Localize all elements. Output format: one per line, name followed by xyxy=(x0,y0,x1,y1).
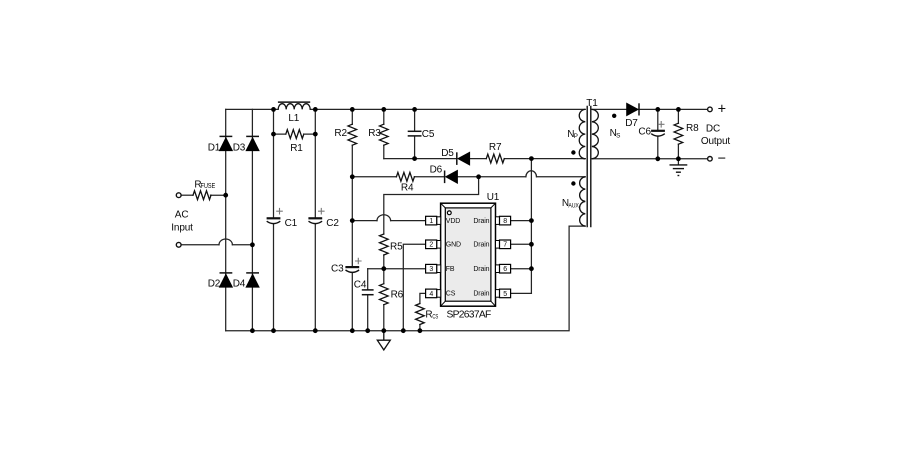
capacitor C3 xyxy=(345,258,361,273)
svg-text:R7: R7 xyxy=(489,142,502,153)
pin 5 box xyxy=(496,289,511,298)
pin 3 box xyxy=(426,264,441,273)
node bottom rail R6 xyxy=(381,328,386,333)
node output top R8 xyxy=(676,107,681,112)
hop AC lower over bridge column 1 xyxy=(219,239,232,245)
svg-text:−: − xyxy=(718,151,726,167)
svg-text:5: 5 xyxy=(503,291,507,298)
wire R6 branch xyxy=(383,269,385,331)
IC U1 SP2637AF body xyxy=(441,203,496,306)
resistor R3 xyxy=(380,124,389,145)
node drain bus pin7 xyxy=(529,242,534,247)
wire AC upper lead xyxy=(181,194,193,196)
node snubber drain bus xyxy=(529,156,534,161)
svg-text:C5: C5 xyxy=(422,129,435,140)
resistor R2 xyxy=(348,124,357,145)
svg-text:GND: GND xyxy=(446,242,461,249)
wire C2 column xyxy=(314,109,316,330)
wire R8 column xyxy=(677,109,679,158)
node drain bus pin6 xyxy=(529,266,534,271)
wire C4 branch xyxy=(367,269,369,331)
svg-text:D3: D3 xyxy=(233,142,246,153)
phase dot NP xyxy=(571,150,575,154)
terminal AC upper xyxy=(176,193,181,198)
inductor L1 xyxy=(278,102,310,109)
node top rail C5 xyxy=(412,107,417,112)
wire R4 D6 line xyxy=(352,176,585,178)
svg-text:VDD: VDD xyxy=(446,218,460,225)
svg-text:Input: Input xyxy=(171,223,193,234)
svg-text:C3: C3 xyxy=(331,263,344,274)
svg-text:P: P xyxy=(574,133,578,140)
node top rail C2 xyxy=(313,107,318,112)
svg-text:S: S xyxy=(616,132,620,139)
svg-text:R4: R4 xyxy=(401,182,414,193)
svg-text:L1: L1 xyxy=(288,113,299,124)
phase dot NS xyxy=(612,114,616,118)
resistor R1 xyxy=(286,130,304,139)
node FB divider xyxy=(381,266,386,271)
node R1 left xyxy=(271,132,276,137)
wire R8 to earth ground xyxy=(677,159,679,165)
svg-text:+: + xyxy=(718,101,726,117)
svg-text:D4: D4 xyxy=(233,278,246,289)
wire bridge column 1 (D1 D2) xyxy=(225,109,227,330)
svg-text:8: 8 xyxy=(503,218,507,225)
svg-text:1: 1 xyxy=(429,218,433,225)
wire FB line xyxy=(368,268,426,270)
wire snubber line D5 R7 to primary bottom xyxy=(384,158,586,160)
diode D4 xyxy=(246,273,259,287)
svg-text:D2: D2 xyxy=(208,278,221,289)
node R1 right xyxy=(313,132,318,137)
svg-text:2: 2 xyxy=(429,242,433,249)
resistor R8 xyxy=(674,123,683,144)
diode D2 xyxy=(220,273,233,287)
svg-text:Output: Output xyxy=(701,136,730,147)
wire AC lower lead with hop over column 1 xyxy=(181,244,252,246)
resistor RFUSE xyxy=(193,191,211,200)
svg-text:AUX: AUX xyxy=(568,202,579,209)
node bottom rail RCS xyxy=(418,328,423,333)
node output bottom C6 xyxy=(655,156,660,161)
svg-text:CS: CS xyxy=(446,291,456,298)
transformer primary winding NP xyxy=(579,109,585,158)
svg-text:SP2637AF: SP2637AF xyxy=(447,310,491,321)
wire bridge column 2 (D3 D4) xyxy=(251,109,253,330)
node bottom rail D4 xyxy=(250,328,255,333)
resistor R7 xyxy=(486,154,504,163)
wire D7 to output plus xyxy=(638,108,707,110)
pin 1 indicator circle xyxy=(447,211,451,215)
svg-text:U1: U1 xyxy=(487,192,500,203)
diode D3 xyxy=(246,136,259,150)
svg-text:C2: C2 xyxy=(326,218,339,229)
ground symbol earth (output) xyxy=(670,165,688,176)
svg-text:R6: R6 xyxy=(391,290,404,301)
wire top rail L1 leads xyxy=(274,108,316,110)
wire C6 column xyxy=(657,109,659,158)
wire C1 column xyxy=(273,109,275,330)
node snubber C5 xyxy=(412,156,417,161)
svg-text:Drain: Drain xyxy=(473,218,489,225)
wire VDD line xyxy=(352,220,425,222)
node RFUSE bridge xyxy=(223,193,228,198)
hop VDD line over R5 feed xyxy=(377,215,391,221)
svg-text:6: 6 xyxy=(503,266,507,273)
node output bottom R8 xyxy=(676,156,681,161)
svg-text:D1: D1 xyxy=(208,142,221,153)
capacitor C4 xyxy=(362,290,374,295)
wire R2 C3 column xyxy=(351,109,353,330)
svg-text:R3: R3 xyxy=(368,128,381,139)
svg-text:C4: C4 xyxy=(354,280,367,291)
capacitor C2 xyxy=(308,208,324,224)
wire top rail left segment xyxy=(226,108,274,110)
wire R3 column to snubber line xyxy=(383,109,385,158)
svg-text:Drain: Drain xyxy=(473,242,489,249)
diode D6 xyxy=(445,171,458,184)
wire RCS bottom lead xyxy=(419,325,421,331)
node bottom rail GND xyxy=(401,328,406,333)
svg-text:CS: CS xyxy=(432,313,438,320)
svg-text:7: 7 xyxy=(503,242,507,249)
node drain bus pin8 xyxy=(529,218,534,223)
wire GND pin2 to rail xyxy=(403,244,425,330)
svg-text:Drain: Drain xyxy=(473,266,489,273)
wire node A to R5 feed xyxy=(384,177,479,234)
svg-text:FB: FB xyxy=(446,266,455,273)
pin 4 box xyxy=(426,289,441,298)
wire drain bus xyxy=(530,159,532,294)
diode D1 xyxy=(220,136,233,150)
ground symbol signal (open triangle) xyxy=(377,331,390,350)
node bottom rail C1 xyxy=(271,328,276,333)
svg-text:R1: R1 xyxy=(290,143,303,154)
resistor RCS xyxy=(416,304,425,325)
node output top C6 xyxy=(655,107,660,112)
svg-text:R2: R2 xyxy=(334,128,347,139)
wire NS bottom to output minus xyxy=(592,158,708,160)
node top rail R2 xyxy=(350,107,355,112)
hop D6 line over drain bus xyxy=(526,171,537,177)
node R4 line R2 column xyxy=(350,174,355,179)
node top rail C1 xyxy=(271,107,276,112)
diode D7 xyxy=(627,103,639,115)
node AC lower bridge xyxy=(250,242,255,247)
capacitor C1 xyxy=(267,208,283,224)
terminal DC plus xyxy=(708,107,713,112)
capacitor C6 xyxy=(651,121,665,136)
svg-text:C1: C1 xyxy=(285,218,298,229)
capacitor C5 xyxy=(408,131,422,136)
svg-text:D7: D7 xyxy=(625,118,638,129)
svg-text:R5: R5 xyxy=(390,241,403,252)
pin 8 box xyxy=(496,216,511,225)
wire R5 bottom to FB node xyxy=(383,255,385,269)
pin 6 box xyxy=(496,264,511,273)
node VDD R2 column xyxy=(350,218,355,223)
svg-text:Drain: Drain xyxy=(473,291,489,298)
svg-text:FUSE: FUSE xyxy=(201,183,216,190)
node bottom rail C4 xyxy=(365,328,370,333)
svg-text:DC: DC xyxy=(706,123,720,134)
wire drain pin stubs to bus xyxy=(511,221,532,294)
svg-text:D5: D5 xyxy=(441,148,454,159)
node A D6 junction xyxy=(476,174,481,179)
resistor R6 xyxy=(380,284,389,305)
wire top rail right segment xyxy=(315,108,585,110)
terminal AC lower xyxy=(176,242,181,247)
terminal DC minus xyxy=(708,157,713,162)
svg-text:AC: AC xyxy=(175,210,189,221)
svg-text:C6: C6 xyxy=(638,126,651,137)
transformer T1 core xyxy=(587,106,591,228)
resistor R5 xyxy=(380,234,389,255)
resistor R4 xyxy=(396,172,414,181)
svg-text:3: 3 xyxy=(429,266,433,273)
pin 7 box xyxy=(496,240,511,249)
phase dot NAUX xyxy=(571,181,575,185)
node bottom rail C3 xyxy=(350,328,355,333)
wire RFUSE right lead xyxy=(211,194,226,196)
pin 2 box xyxy=(426,240,441,249)
wire C5 column xyxy=(414,109,416,158)
transformer secondary winding NS xyxy=(592,109,598,158)
wire NS top to D7 xyxy=(592,108,627,110)
wire bottom rail xyxy=(226,226,586,331)
svg-text:4: 4 xyxy=(429,291,433,298)
wire R1 leads xyxy=(274,133,316,135)
wire CS pin4 to RCS xyxy=(420,293,426,303)
transformer aux winding NAUX xyxy=(580,177,586,226)
node bottom rail C2 xyxy=(313,328,318,333)
node top rail R3 xyxy=(381,107,386,112)
pin 1 box xyxy=(426,216,441,225)
svg-text:R8: R8 xyxy=(686,123,699,134)
svg-text:T1: T1 xyxy=(586,98,598,109)
diode D5 xyxy=(457,152,470,165)
svg-text:D6: D6 xyxy=(430,165,443,176)
